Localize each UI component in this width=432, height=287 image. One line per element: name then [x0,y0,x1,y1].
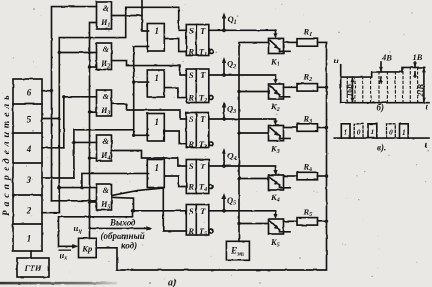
resistor R4 [284,172,327,180]
trigger labels [187,26,207,238]
wire E bus vertical [239,42,269,241]
svg-text:S: S [189,70,194,80]
wire I5 lower input [90,201,97,203]
wire vertical x73.9 [74,130,134,178]
dim 1V arrows [413,62,417,77]
svg-text:1: 1 [371,128,375,137]
wire cell2 stub [42,212,59,214]
svg-text:И4: И4 [100,151,110,162]
svg-text:4В: 4В [381,53,392,63]
svg-text:&: & [103,4,110,13]
svg-text:1: 1 [27,234,32,244]
waveform diagram v [334,124,429,138]
node I3 lower tap [88,111,91,114]
svg-text:0: 0 [357,128,361,137]
svg-text:а): а) [168,278,176,287]
svg-text:в).: в). [377,143,386,153]
svg-text:T3: T3 [199,139,207,151]
node I2 lower tap [88,65,91,68]
wire inverter2 output to R of T2 [165,88,187,98]
svg-text:R3: R3 [303,114,313,126]
resistor R2 [284,84,327,92]
svg-text:1: 1 [344,128,348,137]
svg-text:R5: R5 [303,207,313,219]
wire K4 left input [239,178,269,180]
wire cell4 stub [42,147,64,149]
svg-text:К2: К2 [270,102,280,114]
inverter 3 [147,114,164,142]
svg-text:Q2: Q2 [227,59,236,71]
axis u vertical [340,65,342,103]
svg-text:Распределитель: Распределитель [1,92,12,216]
trigger T1 [186,25,213,56]
axis t baseline [341,102,429,104]
wire inverter2 input [134,81,149,83]
node K4 tap [237,177,240,180]
svg-text:Выход: Выход [109,218,136,228]
trigger T5 [186,205,213,236]
wire cell5 line end at x125.7 [125,16,127,38]
node cell5 junction [58,117,61,120]
node K2 tap [237,90,240,93]
node S5 route join [131,209,134,212]
wire I3 output to S of T3 [112,104,187,119]
svg-text:T: T [200,26,206,36]
node R2 bus [325,86,328,89]
wire Q5 output line [209,211,276,216]
output arrow Q3 [223,105,225,119]
wire Q4 output line [209,166,276,172]
wire inverter1 output to R of T1 [165,39,187,52]
wire I4 output to S of T4 [112,151,187,167]
wire ux riser to S5 route [59,211,133,247]
svg-text:&: & [103,186,110,195]
svg-text:К5: К5 [270,237,280,249]
wire K2 left input [239,91,269,93]
svg-text:1: 1 [402,128,406,137]
svg-text:&: & [103,45,110,54]
node R3 bus [325,126,328,129]
node I3 upper corner dot [62,95,65,98]
svg-text:&: & [103,92,110,101]
svg-text:1: 1 [154,73,159,83]
input arrow ux [59,245,75,247]
pulse 4 dashed [387,124,396,138]
dim arrow 16V [351,77,355,103]
svg-text:u: u [334,56,339,66]
pulse 1 solid [341,124,350,138]
inverter 1 [147,24,164,52]
trigger T4 [186,160,213,194]
svg-text:1В: 1В [413,52,423,62]
trigger T2 [186,69,213,103]
wire Kp bus vertical x89.5 [90,23,97,239]
node inverter3 tap [132,134,135,137]
svg-text:T4: T4 [199,182,207,194]
wire inverter1 input drop from top edge [142,0,149,31]
svg-text:S: S [189,26,194,36]
wire I4 lower input [90,157,97,159]
svg-text:И1: И1 [100,18,110,29]
svg-text:Q1: Q1 [228,14,237,26]
wire I3 lower input [90,111,97,113]
node K5 tap [237,222,240,225]
output arrow Q4 [223,152,225,167]
inverter 2 [147,70,164,97]
svg-text:И2: И2 [100,59,110,70]
AND gate labels [100,4,110,211]
svg-text:К1: К1 [270,57,280,69]
wire inverter4 output to R of T4 [165,176,187,187]
svg-text:ГТИ: ГТИ [24,263,42,273]
svg-text:R2: R2 [303,72,313,84]
wire I2 output to S of T2 [112,61,187,75]
svg-text:К4: К4 [270,192,280,204]
wire I4 upper input [74,141,97,143]
wire K3 left input [239,132,269,134]
pulse 2 dashed [354,124,395,138]
waveform b labels [334,52,429,113]
AND gate I4 [97,135,112,161]
svg-text:T5: T5 [199,226,207,238]
dashed verticals [347,67,417,102]
text labels main [59,14,313,287]
wire I1 output to S of T1 [112,15,143,17]
svg-text:R: R [187,47,194,57]
svg-text:R: R [187,93,194,103]
reference source E_et box [226,241,249,260]
node K3 tap [237,131,240,134]
wire R summing bus [96,42,326,270]
svg-text:R1: R1 [303,27,313,39]
relay K5 [269,219,291,234]
node R5 bus [325,220,328,223]
output arrow Q1 [223,16,225,30]
svg-text:код): код) [121,241,137,251]
waveform diagram b [341,65,429,103]
staircase [341,67,425,77]
wire I5 output to R of T5 [112,188,187,231]
svg-text:4: 4 [26,144,32,154]
svg-text:И3: И3 [100,106,110,117]
dim 4V arrows [379,62,383,83]
wire vertical bus V1 x51.5 [52,7,97,201]
svg-text:T2: T2 [199,93,207,105]
svg-text:S: S [189,206,194,216]
AND gate I2 [97,43,112,70]
svg-text:T: T [200,206,206,216]
wire I5 upper input [59,187,96,189]
wire V1 bottom to Kp bus (I5 upper input) [52,200,97,202]
resistor R1 [284,39,327,47]
comparator Kp box [79,238,97,257]
baseline [334,137,429,139]
node I2 input tap [58,51,61,54]
output arrow Vyhod [90,227,149,229]
svg-text:3: 3 [26,175,32,185]
wire Q2 output line [209,75,276,81]
svg-text:5: 5 [27,115,32,125]
wire inverter3 output to R of T3 [165,131,187,144]
svg-text:t: t [425,140,428,150]
svg-text:T: T [200,114,206,124]
relay K2 [269,84,291,99]
svg-text:И5: И5 [100,200,110,211]
svg-text:2: 2 [26,206,32,216]
node cell6 junction [50,89,53,92]
node I4 upper tap [72,141,75,144]
waveform v labels [344,128,406,137]
wire cell5 stub [42,118,59,120]
distributor box [13,79,42,251]
distributor cell labels [26,88,32,244]
svg-text:R: R [187,139,194,149]
rotated label Распределитель [1,92,12,216]
wire vertical x63.8 to I3 upper input [64,97,97,148]
node I4 lower tap [88,156,91,159]
svg-text:R4: R4 [303,162,313,174]
svg-text:К3: К3 [270,144,280,156]
svg-text:Q4: Q4 [228,151,237,163]
inverter 4 [147,160,164,188]
bottom scan smudge bar [0,282,117,285]
svg-text:Q5: Q5 [227,195,236,207]
wire I2 lower input [90,66,97,68]
svg-text:1: 1 [154,26,159,36]
svg-text:1: 1 [154,163,159,173]
node I5 upper tap [58,186,61,189]
svg-text:0: 0 [389,128,393,137]
svg-text:ux: ux [60,250,68,262]
overline for u_x [59,250,72,251]
svg-text:21В: 21В [416,84,425,98]
wire inverter4 input from I5 line [82,173,149,187]
svg-text:(обратный: (обратный [101,231,145,241]
svg-text:6: 6 [27,88,32,98]
wire S of T5 line [134,210,187,212]
wire cell3 stub [42,177,74,179]
relay K1 [269,38,291,53]
relay K4 [269,175,291,190]
node V1 joins bus [88,199,91,202]
svg-text:T1: T1 [199,47,207,59]
svg-text:T: T [200,70,206,80]
svg-text:б): б) [377,103,385,113]
node S5 junction [132,209,135,212]
node cell2 line crosses bus [88,215,91,218]
svg-text:S: S [189,114,194,124]
pulse 5 solid [400,124,409,138]
wire inverter feed vertical x133.7 [134,46,149,135]
svg-text:16В: 16В [345,84,354,97]
svg-text:1: 1 [154,117,159,127]
wire cell6 to I1 top input [42,90,52,92]
arrowhead into K1 [273,33,277,38]
resistor R5 [284,218,327,226]
AND gate I1 [97,2,112,29]
relay K3 [269,126,291,141]
svg-text:Кр: Кр [81,244,92,254]
dim arrow 21V [422,67,426,102]
wire vertical V2 x59.3 cell5/cell2 [59,38,125,213]
trigger T3 [186,113,213,148]
wire I5 output branch to S line [112,197,134,211]
AND gate I5 [97,184,112,210]
node inverter2 tap [132,80,135,83]
svg-text:R: R [187,226,194,236]
svg-text:&: & [103,137,110,146]
svg-text:Eэт: Eэт [230,246,244,258]
svg-text:R: R [187,182,194,192]
resistor R3 [284,124,327,132]
wire Q3 output line [209,119,276,122]
svg-text:S: S [189,161,194,171]
GTI generator box [17,251,49,277]
wire I2 upper input [59,52,96,54]
pulse 3 solid [368,124,377,138]
node inverter4 source tap [80,186,83,189]
wire K5 left input [239,223,269,225]
node R4 bus [325,174,328,177]
output arrow Q2 [223,61,225,76]
output arrow Q5 [223,197,225,211]
node I5 lower tap [88,200,91,203]
AND gate I3 [97,90,112,116]
svg-text:Q3: Q3 [227,104,236,116]
svg-text:uц: uц [74,223,83,235]
wire Q1 output line [209,30,276,35]
svg-text:T: T [200,161,206,171]
